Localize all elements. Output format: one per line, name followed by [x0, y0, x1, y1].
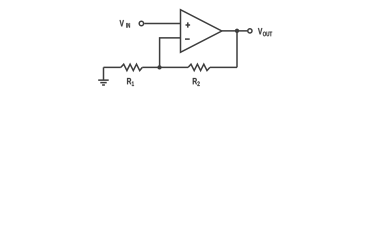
wire VIN to op-amp + input — [144, 23, 180, 25]
wire ground to R1 — [104, 66, 121, 68]
op-amp U1 triangle — [181, 10, 222, 53]
resistor R1 — [121, 64, 143, 70]
label R1 "R" — [127, 78, 131, 84]
wire op-amp inverting input to feedback node — [160, 38, 181, 68]
label R1 subscript "1" — [132, 81, 134, 86]
wire op-amp output to VOUT terminal — [222, 30, 248, 32]
resistor R2 — [188, 64, 210, 70]
wire output node down to R2 — [236, 31, 238, 68]
node VIN terminal circle — [139, 21, 143, 25]
label VOUT "V" — [258, 28, 262, 34]
node VOUT terminal circle — [248, 29, 252, 33]
wire R2 to output branch — [210, 66, 237, 68]
junction output node dot — [235, 29, 239, 33]
op-amp - pin marking — [185, 38, 190, 40]
label VOUT subscript "OUT" — [263, 32, 272, 37]
label VIN subscript "IN" — [126, 23, 130, 28]
label R2 "R" — [193, 78, 197, 84]
label R2 subscript "2" — [197, 81, 199, 86]
op-amp + pin marking — [186, 22, 191, 27]
junction feedback node dot — [157, 65, 161, 69]
ground — [98, 67, 109, 85]
label VIN "V" — [120, 20, 124, 26]
wire R1 to R2 through feedback node — [142, 66, 188, 68]
